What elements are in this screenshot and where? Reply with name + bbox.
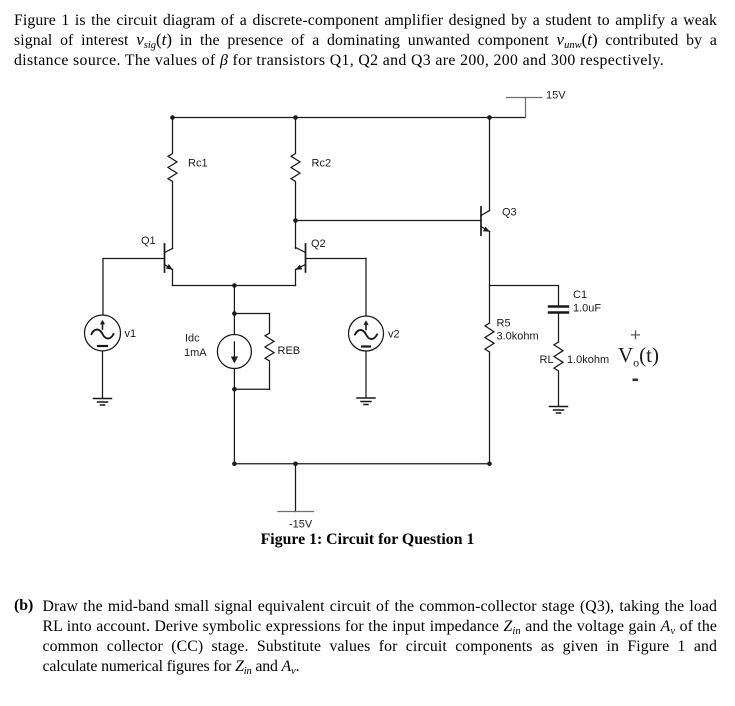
power symbol +15V bar — [507, 98, 543, 118]
ground under v2 — [357, 398, 375, 405]
power symbol -15V bar — [278, 511, 314, 513]
wire bottom negative rail — [234, 463, 489, 465]
wire REB bottom branch — [234, 388, 269, 390]
top paragraph — [14, 11, 717, 71]
wire v1 to ground — [102, 351, 104, 398]
junction node bottom rail right — [487, 462, 492, 467]
junction node top rail left — [170, 115, 175, 120]
wire center tap down to current source — [233, 286, 235, 335]
ground under v1 — [94, 399, 112, 406]
junction node bottom rail -15V — [293, 462, 298, 467]
wire REB top branch — [234, 313, 269, 315]
junction node Rc2/Q3 base — [293, 218, 298, 223]
svg-text:15V: 15V — [546, 90, 566, 102]
wire v2 to ground — [365, 351, 367, 398]
svg-text:Q3: Q3 — [502, 207, 517, 219]
bottom paragraph label (b) — [14, 597, 33, 615]
wire emitter to C1 — [490, 286, 559, 307]
source v1 minus — [98, 345, 107, 347]
svg-text:Idc: Idc — [185, 333, 200, 345]
wire Q3 collector to rail — [489, 117, 491, 211]
wire 15V stub — [525, 98, 527, 118]
svg-text:REB: REB — [278, 345, 301, 357]
resistor R5 — [485, 323, 494, 464]
svg-text:Q1: Q1 — [141, 235, 156, 247]
label output plus — [631, 330, 640, 339]
junction node top rail Rc2 — [293, 115, 298, 120]
svg-text:R5: R5 — [497, 318, 511, 330]
svg-text:C1: C1 — [573, 289, 587, 301]
ground under RL — [550, 407, 568, 414]
svg-text:v1: v1 — [125, 328, 137, 340]
wire Idc bottom — [233, 369, 235, 464]
source v2 sine — [355, 330, 377, 339]
resistor RL — [554, 342, 563, 406]
source v1 circle — [85, 315, 121, 351]
current source arrow — [233, 342, 235, 357]
source v2 minus — [362, 345, 370, 347]
svg-text:1.0uF: 1.0uF — [573, 303, 601, 315]
current source Idc circle — [217, 335, 251, 369]
junction node Idc/REB bottom — [232, 387, 237, 392]
source v2 plus arrow — [365, 324, 367, 330]
svg-text:Rc1: Rc1 — [188, 158, 208, 170]
wire Q3 emitter down — [489, 232, 491, 324]
junction node top rail Q3 — [487, 115, 492, 120]
junction node bottom rail left — [232, 462, 237, 467]
resistor Rc1 — [168, 118, 177, 249]
label output minus — [633, 379, 639, 382]
svg-text:1.0kohm: 1.0kohm — [567, 354, 609, 366]
wire Q2 base to v2 — [365, 259, 367, 317]
figure caption — [0, 531, 735, 549]
wire emitter rail Q1-Q2 — [173, 285, 296, 287]
svg-text:Rc2: Rc2 — [312, 158, 332, 170]
svg-text:RL: RL — [540, 354, 554, 366]
wire top supply rail — [173, 117, 526, 119]
resistor Rc2 — [291, 118, 300, 249]
wire Q1 base to v1 — [102, 259, 104, 316]
wire -15V stub — [295, 464, 297, 512]
capacitor C1 — [549, 307, 568, 313]
svg-text:Q2: Q2 — [311, 238, 326, 250]
wire Rc2 node to Q3 base — [296, 220, 481, 222]
svg-text:Vo(t): Vo(t) — [618, 343, 659, 370]
bottom paragraph — [14, 597, 717, 677]
svg-text:-15V: -15V — [289, 519, 313, 531]
source v2 circle — [349, 316, 384, 351]
wire C1 to RL — [558, 313, 560, 342]
transistor Q3 — [481, 207, 490, 235]
source v1 sine — [92, 330, 114, 339]
junction node Idc/REB top — [232, 311, 237, 316]
svg-text:v2: v2 — [388, 329, 400, 341]
svg-text:1mA: 1mA — [184, 347, 207, 359]
transistor Q2 — [295, 244, 366, 286]
resistor REB — [265, 314, 274, 390]
junction node emitter rail tap — [232, 283, 237, 288]
source v1 plus arrow — [102, 323, 104, 329]
transistor Q1 — [103, 244, 173, 286]
svg-text:3.0kohm: 3.0kohm — [497, 331, 539, 343]
